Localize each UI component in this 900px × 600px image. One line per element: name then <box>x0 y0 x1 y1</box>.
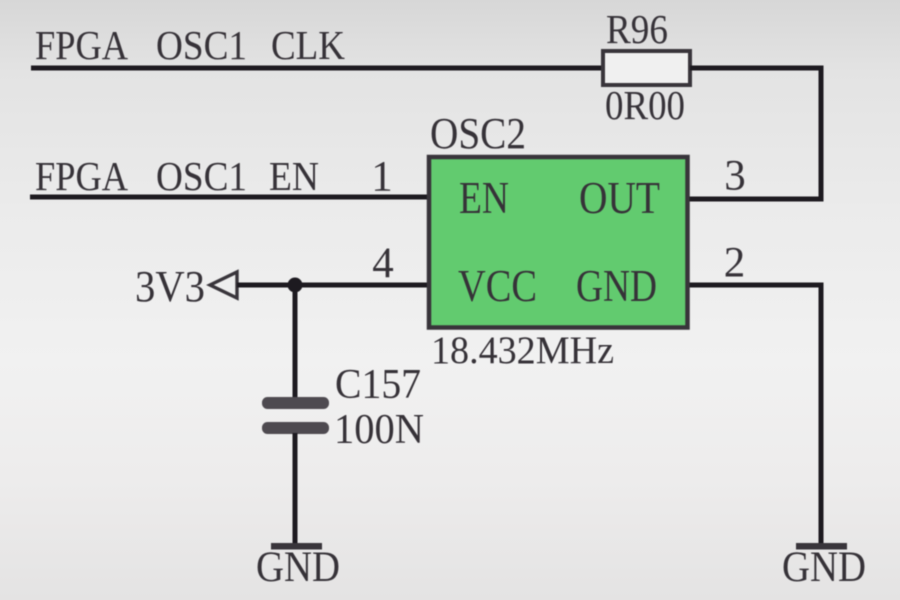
wire FPGA_OSC1_EN to pin 1 <box>30 195 428 200</box>
oscillator OSC2 body <box>429 157 688 328</box>
svg-text:0R00: 0R00 <box>605 82 685 128</box>
svg-text:3V3: 3V3 <box>135 262 205 311</box>
svg-text:GND: GND <box>576 261 657 311</box>
svg-text:OSC2: OSC2 <box>430 109 526 158</box>
svg-text:EN: EN <box>269 153 319 199</box>
net FPGA_OSC1_EN label <box>35 153 319 199</box>
wire GND pin 2 to bottom-right ground <box>689 285 821 545</box>
svg-text:GND: GND <box>782 544 866 591</box>
svg-text:FPGA: FPGA <box>35 153 128 199</box>
ground symbol left <box>271 543 322 550</box>
svg-text:OSC1: OSC1 <box>156 22 247 68</box>
wire OUT pin 3 <box>689 197 824 202</box>
svg-text:FPGA: FPGA <box>35 22 128 68</box>
svg-text:CLK: CLK <box>271 22 345 68</box>
svg-text:OSC1: OSC1 <box>156 153 247 199</box>
svg-text:EN: EN <box>459 173 509 223</box>
svg-text:GND: GND <box>256 544 340 591</box>
resistor R96 <box>603 51 690 85</box>
ground symbol right <box>796 543 847 550</box>
svg-text:C157: C157 <box>335 362 421 408</box>
svg-text:2: 2 <box>724 240 746 287</box>
power symbol 3V3 <box>210 272 237 298</box>
svg-text:4: 4 <box>372 240 394 287</box>
wire 3V3 to pin 4 <box>237 283 428 288</box>
net FPGA_OSC1_CLK label <box>35 22 345 68</box>
wire FPGA_OSC1_CLK left segment <box>31 66 604 71</box>
svg-text:18.432MHz: 18.432MHz <box>431 329 614 372</box>
wire junction down to capacitor <box>293 285 298 399</box>
capacitor C157 <box>262 397 329 434</box>
svg-text:R96: R96 <box>606 6 668 52</box>
wire capacitor to ground <box>293 433 298 545</box>
svg-text:3: 3 <box>724 153 746 200</box>
svg-text:1: 1 <box>371 154 393 201</box>
svg-text:100N: 100N <box>334 407 424 453</box>
junction node at 3V3 branch <box>288 278 303 293</box>
svg-text:OUT: OUT <box>579 173 660 223</box>
wire resistor output to corner <box>690 68 821 199</box>
svg-text:VCC: VCC <box>458 261 537 311</box>
